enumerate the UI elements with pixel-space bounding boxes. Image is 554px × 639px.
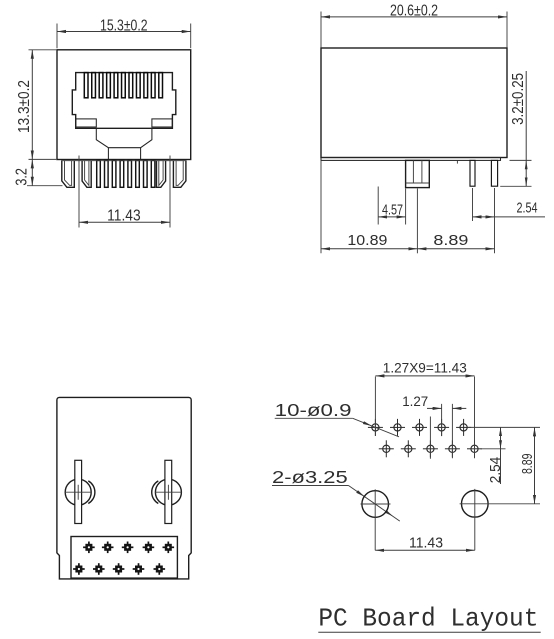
svg-text:2.54: 2.54: [517, 200, 538, 217]
svg-text:8.89: 8.89: [433, 232, 468, 249]
svg-text:3.2: 3.2: [13, 168, 30, 186]
svg-text:10-ø0.9: 10-ø0.9: [275, 400, 352, 420]
svg-text:10.89: 10.89: [347, 232, 387, 249]
svg-text:2-ø3.25: 2-ø3.25: [272, 467, 348, 487]
svg-text:11.43: 11.43: [409, 535, 443, 552]
svg-text:11.43: 11.43: [107, 207, 141, 224]
svg-text:2.54: 2.54: [487, 457, 504, 484]
svg-text:PC Board Layout: PC Board Layout: [318, 604, 538, 634]
svg-text:3.2±0.25: 3.2±0.25: [510, 73, 527, 125]
svg-text:13.3±0.2: 13.3±0.2: [16, 80, 33, 133]
svg-text:4.57: 4.57: [382, 201, 403, 218]
svg-text:20.6±0.2: 20.6±0.2: [390, 2, 438, 19]
svg-text:15.3±0.2: 15.3±0.2: [100, 17, 148, 34]
svg-text:8.89: 8.89: [519, 454, 536, 475]
svg-text:1.27: 1.27: [402, 393, 428, 409]
svg-text:1.27X9=11.43: 1.27X9=11.43: [383, 361, 467, 376]
